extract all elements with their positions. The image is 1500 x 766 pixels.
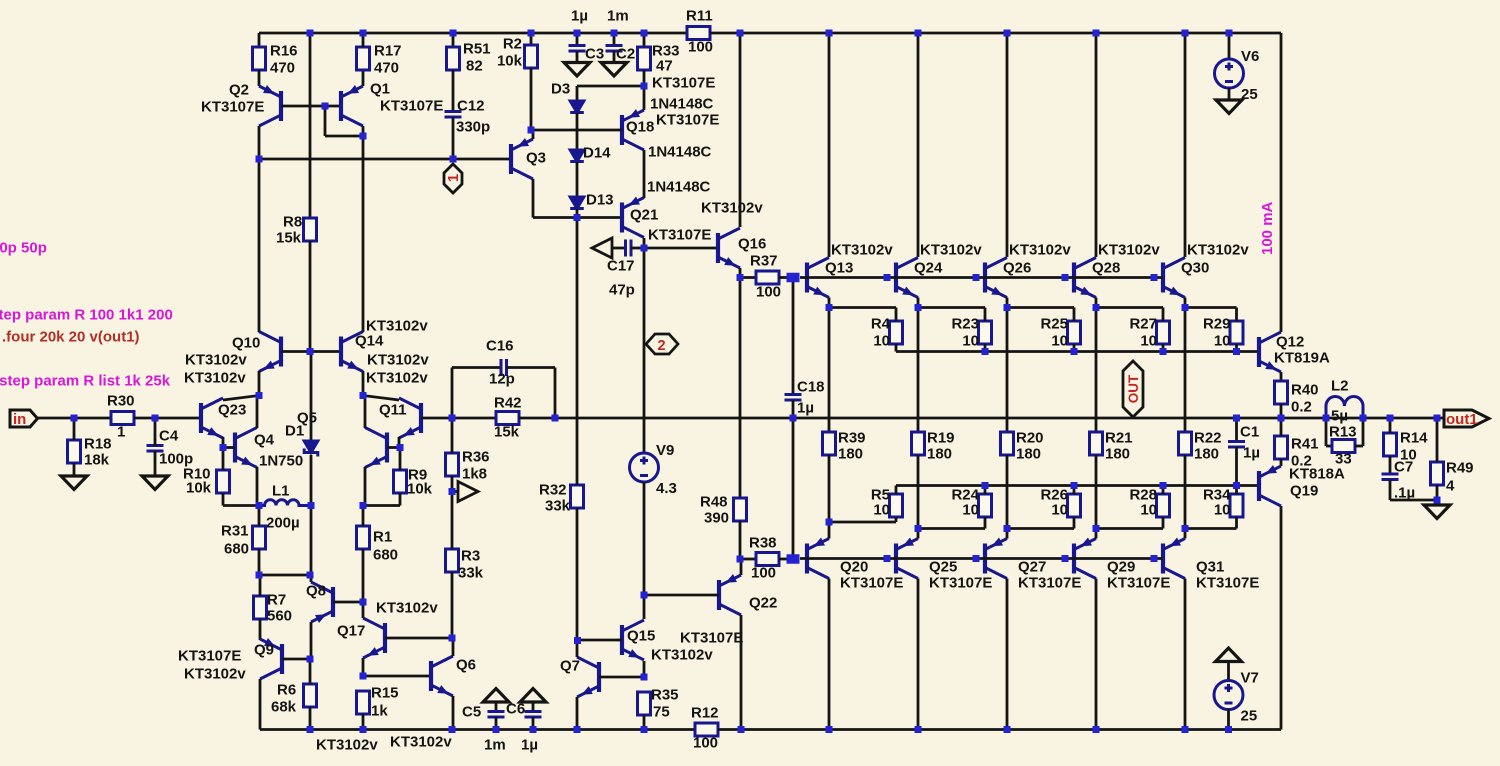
wire rail corner down to R16 [258, 33, 261, 47]
svg-text:KT3107E: KT3107E [380, 98, 443, 115]
svg-text:Q6: Q6 [456, 657, 476, 674]
svg-text:1N750: 1N750 [259, 453, 303, 470]
svg-text:KT3102v: KT3102v [376, 600, 438, 617]
svg-text:KT3102v: KT3102v [184, 666, 246, 683]
wire R39 to lower junction [828, 455, 831, 522]
transistor Q14 KT3102v (NPN) [341, 332, 363, 372]
svg-text:Q14: Q14 [355, 333, 384, 350]
node junction R48 / Q22 emitter / R38 [737, 556, 744, 563]
wire Q15 base [578, 639, 623, 642]
svg-text:Q3: Q3 [526, 150, 546, 167]
resistor R14 10 [1384, 433, 1397, 456]
svg-text:R12: R12 [691, 705, 719, 722]
node junction Q26 emitter [1004, 304, 1011, 311]
wire arrow to V7 [1227, 662, 1230, 682]
svg-text:100: 100 [756, 284, 781, 301]
wire R6 leads [309, 659, 312, 684]
svg-text:R13: R13 [1329, 424, 1357, 441]
node junction bottom rail / Q29 [1093, 726, 1100, 733]
node junction R10 / Q4 emitter / R31 / L1 [256, 502, 263, 509]
resistor R20 180 [1001, 432, 1014, 455]
svg-text:Q16: Q16 [738, 236, 766, 253]
diode D13 1N4148C [570, 197, 584, 209]
node junction out1 / R49 [1434, 415, 1441, 422]
svg-text:KT3102v: KT3102v [1009, 242, 1071, 259]
svg-text:R49: R49 [1446, 460, 1474, 477]
resistor R2 [525, 45, 538, 68]
svg-text:Q19: Q19 [1290, 483, 1318, 500]
svg-text:R17: R17 [374, 43, 402, 60]
wire node-1 horizontal [259, 158, 511, 161]
svg-text:10: 10 [962, 502, 979, 519]
wire Q20 emitter stub [828, 522, 831, 539]
resistor R4 10 [890, 321, 903, 344]
svg-text:KT3102v: KT3102v [316, 737, 378, 754]
svg-text:R19: R19 [927, 430, 955, 447]
svg-text:10k: 10k [407, 481, 433, 498]
wire C16 branch down [554, 368, 557, 419]
wire to D3 [576, 86, 579, 101]
wire R9 leads [399, 448, 402, 471]
resistor R32 [571, 485, 584, 508]
resistor R16 [253, 47, 266, 70]
wire emitter to R4 [829, 306, 896, 309]
wire Q11 collector link [363, 396, 399, 401]
node junction bottom rail / Q7 emitter [574, 726, 581, 733]
node junction Q1 base tap [322, 103, 329, 110]
flag arrow right [458, 482, 478, 502]
wire rail to C3 [576, 33, 579, 46]
transistor Q15 KT3102v (NPN) [622, 620, 644, 660]
resistor R6 [304, 684, 317, 707]
ground under C2 [601, 63, 627, 77]
node junction R2/rail [528, 30, 535, 37]
wire Q3 collector down [532, 179, 535, 218]
resistor R1 [357, 526, 370, 549]
svg-text:Q22: Q22 [749, 595, 777, 612]
node junction bottom rail / Q22 collector [738, 726, 745, 733]
svg-text:Q20: Q20 [840, 559, 868, 576]
transistor Q13 KT3102v (NPN) [807, 258, 829, 298]
svg-text:out1: out1 [1446, 411, 1478, 428]
node junction L1 / D1 column [308, 502, 315, 509]
svg-text:1m: 1m [484, 737, 506, 754]
node junction Q24 emitter [915, 304, 922, 311]
svg-text:1µ: 1µ [797, 400, 814, 417]
wire D3 top link [577, 85, 644, 88]
wire Q22 collector to rail [740, 615, 743, 730]
node junction rail / Q28 collector [1093, 30, 1100, 37]
wire Q3 emitter stub [532, 130, 535, 139]
svg-text:10k: 10k [186, 480, 212, 497]
svg-text:Q7: Q7 [560, 658, 580, 675]
svg-text:R6: R6 [277, 682, 296, 699]
node junction bottom rail / Q25 [915, 726, 922, 733]
svg-text:C4: C4 [159, 428, 179, 445]
node junction R51/rail [450, 30, 457, 37]
wire bottom supply rail (right part) [718, 728, 1281, 731]
node junction R34 / bias bus [1233, 482, 1240, 489]
resistor R13 33 (parallel) [1325, 418, 1328, 446]
svg-text:Q2: Q2 [229, 82, 249, 99]
wire bottom driver base bus [800, 557, 1163, 560]
svg-text:Q1: Q1 [370, 81, 390, 98]
svg-text:390: 390 [704, 510, 729, 527]
wire D1 column down [310, 506, 313, 576]
svg-text:R35: R35 [651, 687, 679, 704]
transistor Q29 KT3107E (PNP) [1074, 539, 1096, 579]
svg-text:10: 10 [873, 502, 890, 519]
svg-text:OUT: OUT [1126, 374, 1141, 403]
svg-text:C17: C17 [607, 258, 635, 275]
wire to flag arrow [452, 490, 459, 493]
svg-text:KT3107E: KT3107E [652, 75, 715, 92]
svg-text:R32: R32 [539, 482, 567, 499]
net flag out1 [1444, 410, 1489, 427]
inductor L1 200µ [259, 500, 311, 506]
node junction C1 / mid line [1233, 415, 1240, 422]
wire D1 to L1 node [310, 455, 313, 506]
wire out node to R41 [1280, 418, 1283, 436]
transistor Q20 KT3107E (PNP) [807, 539, 829, 579]
wire Q10 collector column [258, 159, 261, 332]
svg-text:Q23: Q23 [218, 402, 246, 419]
node junction rail / Q30 collector [1182, 30, 1189, 37]
svg-text:KT818A: KT818A [1289, 466, 1345, 483]
node junction bottom base bus [884, 555, 891, 562]
capacitor C12 [445, 112, 462, 118]
svg-text:R18: R18 [84, 436, 112, 453]
wire Q16 collector to rail [739, 33, 742, 227]
node junction R32 / Q15 base / Q7 collector [574, 637, 581, 644]
svg-text:KT3102v: KT3102v [366, 318, 428, 335]
resistor R49 4 [1431, 462, 1444, 485]
svg-text:R40: R40 [1291, 382, 1319, 399]
wire R42 to V9 column [519, 417, 1444, 420]
wire top 10-ohm bus to Q12 base [896, 350, 1237, 353]
svg-text:KT3107E: KT3107E [680, 630, 743, 647]
svg-text:15k: 15k [494, 424, 520, 441]
capacitor C4 [147, 446, 164, 452]
wire Q22 emitter stub [740, 559, 743, 575]
svg-text:18k: 18k [84, 452, 110, 469]
voltage source V7 25 [1214, 681, 1243, 710]
svg-text:KT3102v: KT3102v [920, 242, 982, 259]
svg-text:L2: L2 [1331, 378, 1349, 395]
resistor R8 [304, 218, 317, 241]
node junction bottom rail / Q27 [1004, 726, 1011, 733]
wire Q14 collector column [362, 136, 365, 332]
wire rail to R8 [309, 33, 312, 218]
svg-text:Q18: Q18 [626, 119, 654, 136]
svg-text:82: 82 [466, 58, 483, 75]
node junction bottom base bus [973, 555, 980, 562]
wire column Q26 down [1006, 308, 1009, 433]
net flag 2 [646, 334, 678, 354]
svg-text:.step param R 100 1k1 200: .step param R 100 1k1 200 [0, 307, 173, 324]
wire emitter to R29 [1185, 306, 1237, 309]
wire Q6 base [363, 675, 431, 678]
svg-text:1: 1 [117, 424, 125, 441]
wire Q24 emitter stub [917, 298, 920, 308]
net flag 1 [444, 164, 462, 193]
node junction R29 / driver bus [1233, 348, 1240, 355]
node big junction R37 / C18 / driver base bus [787, 273, 800, 283]
wire R31 leads [258, 506, 261, 527]
svg-text:1µ: 1µ [571, 8, 588, 25]
svg-text:1N4148C: 1N4148C [648, 144, 712, 161]
wire Q25 collector to rail [917, 579, 920, 730]
resistor R3 [446, 549, 459, 572]
transistor Q3 KT3107E (PNP) [511, 139, 533, 179]
wire Q1 emitter to R17 [362, 70, 365, 86]
svg-text:KT819A: KT819A [1274, 350, 1330, 367]
node junction bottom rail / Q20 [826, 726, 833, 733]
resistor R11 (in rail) [687, 27, 710, 40]
transistor Q1 KT3107E (PNP) [341, 86, 363, 126]
svg-text:10: 10 [1214, 502, 1231, 519]
svg-text:R21: R21 [1105, 430, 1133, 447]
svg-text:180: 180 [927, 446, 952, 463]
wire R49 leads [1436, 418, 1439, 462]
svg-text:R22: R22 [1194, 430, 1222, 447]
wire Q14 emitter stub [362, 371, 365, 396]
resistor R41 0.2 [1275, 436, 1288, 459]
svg-text:.four 20k 20 v(out1): .four 20k 20 v(out1) [2, 329, 140, 346]
svg-text:C2: C2 [616, 46, 635, 63]
node junction Q20 emitter [826, 519, 833, 526]
svg-text:KT3107E: KT3107E [1018, 575, 1081, 592]
svg-text:Q21: Q21 [630, 207, 658, 224]
transistor Q25 KT3107E (PNP) [896, 539, 918, 579]
wire Q8 collector stub [310, 575, 313, 582]
svg-text:10: 10 [962, 333, 979, 350]
wire Q1 base loop down [324, 106, 327, 136]
wire C7 gnd stub [1436, 500, 1439, 505]
wire C17 to node [631, 247, 644, 250]
wire Q7 emitter stub [576, 697, 579, 730]
svg-text:0.2: 0.2 [1291, 399, 1312, 416]
node junction Q31 emitter [1182, 525, 1189, 532]
svg-text:R39: R39 [838, 430, 866, 447]
transistor Q7 (NPN, mirrored) [577, 657, 599, 697]
wire Q13 emitter stub [828, 298, 831, 308]
wire rail to R33 [643, 33, 646, 47]
wire rail to R51 [452, 33, 455, 47]
node junction Q1 collector [360, 133, 367, 140]
node junction L2 left [1323, 415, 1330, 422]
wire Q18 emitter stub [643, 86, 646, 110]
node junction bottom rail / C6 [530, 726, 537, 733]
node junction Q23 emitter / Q4 base [220, 444, 227, 451]
node junction R26 / bias bus [1071, 482, 1078, 489]
wire Q12 emitter stub [1280, 372, 1283, 381]
svg-text:Q25: Q25 [929, 559, 957, 576]
wire C6 to rail [532, 717, 535, 730]
node junction Q8 collector / D1 column [307, 572, 314, 579]
node junction bottom base bus [1151, 555, 1158, 562]
resistor R51 [447, 47, 460, 70]
svg-text:Q27: Q27 [1018, 559, 1046, 576]
wire V7 to bottom rail [1227, 709, 1230, 730]
wire to C16 [452, 366, 501, 369]
svg-text:Q11: Q11 [379, 402, 407, 419]
svg-text:560: 560 [267, 608, 292, 625]
node junction Q9 base / R6 [307, 656, 314, 663]
svg-text:R36: R36 [462, 449, 490, 466]
diode D3 1N4148C [570, 101, 584, 113]
wire Q9 base [282, 658, 310, 661]
capacitor C6 [532, 702, 535, 712]
wire R19 to lower junction [917, 455, 920, 529]
wire collector column Q28 to rail [1095, 33, 1098, 257]
node junction R8 / D1 / bases [307, 348, 314, 355]
svg-text:R31: R31 [221, 523, 249, 540]
wire C7/R49 ground link [1390, 499, 1437, 502]
wire R51 to C12 [452, 70, 455, 112]
svg-text:10: 10 [1214, 333, 1231, 350]
svg-text:D14: D14 [583, 145, 611, 162]
wire C18 column lower [792, 418, 795, 555]
svg-text:10: 10 [1051, 333, 1068, 350]
wire C18 column [792, 282, 795, 394]
wire C7 to ground wire [1389, 480, 1392, 501]
svg-text:1k8: 1k8 [462, 466, 487, 483]
resistor R26 10 [1068, 494, 1081, 517]
node junction Q16 collector/rail [737, 30, 744, 37]
node junction Q16 emitter / R37 / R48 [737, 274, 744, 281]
svg-text:R25: R25 [1040, 316, 1068, 333]
wire Q11 emitter stub [398, 437, 401, 448]
svg-text:180: 180 [1105, 446, 1130, 463]
node junction Q13 emitter [826, 304, 833, 311]
wire Q23 collector link [223, 396, 259, 401]
node junction top base bus [884, 274, 891, 281]
wire bus to Q12 [1237, 350, 1260, 353]
wire Q16 emitter node down to R48 [739, 278, 742, 499]
wire D13 to node [576, 209, 579, 218]
node junction R36 / flag arrow / R3 [449, 488, 456, 495]
svg-text:25: 25 [1241, 708, 1258, 725]
wire Q12 collector to rail column [1280, 33, 1283, 332]
node junction R8/rail [307, 30, 314, 37]
arrow flag above V7 [1216, 648, 1242, 662]
wire Q31 collector to rail [1184, 579, 1187, 730]
svg-text:47p: 47p [609, 282, 635, 299]
node junction Q8 base / R1 / Q17 collector [360, 599, 367, 606]
wire Q7 base [599, 676, 644, 679]
resistor R30 [111, 412, 134, 425]
wire bottom bias bus to Q19 base [896, 484, 1259, 487]
svg-text:R15: R15 [371, 685, 399, 702]
capacitor C1 [1235, 418, 1238, 442]
transistor Q9 KT3107E (PNP, mirrored) [260, 639, 282, 679]
node junction R24 / bias bus [982, 482, 989, 489]
svg-text:47: 47 [656, 58, 673, 75]
svg-text:75: 75 [653, 704, 670, 721]
transistor Q8 KT3107E (PNP, mirrored) [311, 582, 333, 622]
svg-text:Q5: Q5 [297, 410, 317, 427]
wire Q29 emitter stub [1095, 529, 1098, 539]
diode D14 1N4148C [570, 150, 584, 162]
svg-text:4.3: 4.3 [656, 480, 677, 497]
svg-text:KT3107E: KT3107E [840, 575, 903, 592]
wire top supply rail (left part) [259, 32, 687, 35]
wire C4 leads [154, 418, 157, 446]
node junction C3/rail [574, 30, 581, 37]
wire R16 to Q2 emitter [258, 70, 261, 86]
node junction R42 / C16 [552, 415, 559, 422]
capacitor C18 [785, 395, 802, 401]
wire R1 leads [362, 506, 365, 527]
resistor R36 [446, 453, 459, 476]
wire D3 to D14 [576, 113, 579, 150]
svg-text:Q24: Q24 [914, 260, 943, 277]
wire R3 leads [451, 492, 454, 550]
wire R22 to lower junction [1184, 455, 1187, 529]
wire emitter to R25 [1007, 306, 1074, 309]
svg-text:180: 180 [838, 446, 863, 463]
svg-text:C16: C16 [486, 338, 514, 355]
wire collector column Q24 to rail [917, 33, 920, 257]
node junction C18 / mid line [790, 415, 797, 422]
svg-text:.step param R list 1k 25k: .step param R list 1k 25k [0, 373, 171, 390]
wire column Q30 down [1184, 308, 1187, 433]
wire junction to R5 [829, 521, 896, 524]
svg-text:33k: 33k [545, 498, 571, 515]
svg-text:180: 180 [1016, 446, 1041, 463]
ground under C4 [142, 476, 168, 490]
resistor R25 10 [1068, 321, 1081, 344]
wire Q15 collector stub [643, 595, 646, 619]
svg-text:10: 10 [1051, 502, 1068, 519]
wire Q10 emitter stub [258, 371, 261, 396]
resistor R34 10 [1230, 494, 1243, 517]
svg-text:R41: R41 [1291, 436, 1319, 453]
wire to R38 [740, 558, 756, 561]
node junction mid line / R36 column [449, 415, 456, 422]
node junction C12 / wire-1 [450, 156, 457, 163]
svg-text:R7: R7 [267, 592, 286, 609]
transistor Q5 KT3102v (NPN, mirrored) [365, 428, 387, 468]
svg-text:100 mA: 100 mA [1259, 201, 1276, 255]
wire Q21 base [577, 216, 622, 219]
node junction Q5 emitter / R9 / R1 [360, 502, 367, 509]
wire Q17 collector stub [362, 602, 365, 618]
svg-text:1µ: 1µ [521, 737, 538, 754]
wire Q6 collector stub [452, 638, 455, 656]
svg-text:Q28: Q28 [1092, 260, 1120, 277]
wire collector column Q26 to rail [1006, 33, 1009, 257]
svg-text:V9: V9 [656, 442, 674, 459]
wire Q18 collector to Q21 emitter [643, 150, 646, 198]
transistor Q23 KT3102v (NPN) [201, 398, 223, 438]
svg-text:R3: R3 [461, 548, 480, 565]
svg-text:KT3102v: KT3102v [831, 242, 893, 259]
wire R18 to ground [73, 418, 76, 440]
node junction rail / Q24 collector [915, 30, 922, 37]
wire Q7 collector stub [576, 641, 579, 657]
resistor R31 [253, 526, 266, 549]
transistor Q26 KT3102v (NPN) [985, 258, 1007, 298]
resistor R22 180 [1179, 432, 1192, 455]
transistor Q12 KT819A (NPN power) [1259, 332, 1281, 372]
wire column Q13 down [828, 308, 831, 433]
svg-text:V7: V7 [1241, 670, 1259, 687]
svg-text:R38: R38 [749, 535, 777, 552]
transistor Q16 KT3102v (NPN) [718, 228, 740, 268]
wire C18 to mid line [792, 400, 795, 418]
